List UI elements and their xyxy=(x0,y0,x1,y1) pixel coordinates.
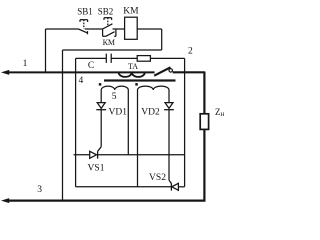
svg-text:2: 2 xyxy=(188,47,193,57)
svg-text:4: 4 xyxy=(79,76,84,86)
svg-text:1: 1 xyxy=(23,59,28,69)
svg-text:5: 5 xyxy=(112,92,117,102)
svg-text:VS1: VS1 xyxy=(88,163,105,173)
svg-text:VD1: VD1 xyxy=(109,108,128,118)
svg-text:KM: KM xyxy=(123,7,139,17)
svg-text:VD2: VD2 xyxy=(141,108,160,118)
svg-text:КМ: КМ xyxy=(103,38,115,47)
svg-text:SB1: SB1 xyxy=(77,7,93,17)
svg-text:3: 3 xyxy=(37,185,42,195)
svg-text:TA: TA xyxy=(128,62,138,71)
svg-text:VS2: VS2 xyxy=(149,173,166,183)
svg-text:SB2: SB2 xyxy=(98,7,114,17)
svg-text:C: C xyxy=(88,61,94,71)
